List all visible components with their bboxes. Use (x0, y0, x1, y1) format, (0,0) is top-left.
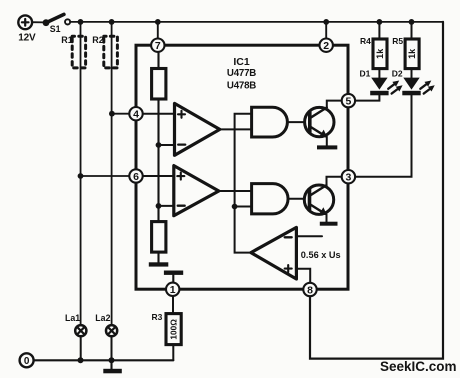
wire op2 - input (159, 205, 174, 207)
transistor Q1 (305, 107, 334, 137)
node pin 2 (320, 39, 333, 53)
junction top rail / pin2 (323, 19, 329, 25)
wire node6 to op2 + (142, 175, 173, 177)
svg-text:4: 4 (133, 109, 139, 121)
LED D1 (370, 78, 404, 96)
wire G1 output (288, 121, 305, 123)
svg-text:1k: 1k (407, 48, 417, 59)
svg-text:R1: R1 (61, 35, 73, 45)
wire R3 to bottom rail (172, 345, 174, 361)
junction divider / op2 inverting (156, 203, 162, 209)
svg-text:7: 7 (155, 40, 161, 52)
resistor R2 (dashed optional) (104, 36, 118, 68)
wire La1 branch (80, 22, 82, 325)
svg-text:U478B: U478B (227, 81, 256, 92)
svg-text:D1: D1 (360, 68, 371, 78)
wire A3 - reference (296, 235, 322, 237)
junction bottom rail / La1 (78, 357, 84, 363)
resistor R3 (166, 314, 181, 345)
IC1 box (136, 45, 348, 289)
wire La2 branch (111, 22, 113, 325)
resistor divider upper (152, 69, 166, 100)
wire node5 to D1 (355, 95, 380, 100)
node pin 1 (166, 283, 179, 297)
wire node1 to R3 (172, 296, 174, 314)
wire bottom rail (34, 359, 174, 361)
junction top rail / La1 branch (78, 19, 84, 25)
svg-text:0: 0 (24, 356, 30, 367)
op-amp A1 (175, 103, 220, 155)
lamp La2 (106, 325, 117, 336)
wire divider to ground (157, 252, 159, 262)
ground Q1 (317, 145, 337, 149)
wire comparator output riser (235, 114, 252, 253)
wire junction to node 4 (112, 113, 130, 115)
junction top rail / R5 (409, 19, 415, 25)
junction bottom rail / La2 (109, 357, 115, 363)
ground bottom rail (103, 360, 122, 373)
wire Q1 collector to node5 (327, 101, 342, 108)
wire Q1 emitter to ground (326, 137, 328, 146)
junction La2 branch / node4 (109, 111, 115, 117)
wire La2 to bottom rail (111, 337, 113, 360)
svg-text:100Ω: 100Ω (169, 319, 179, 340)
junction divider / op1 inverting (156, 142, 162, 148)
wire op1 - input (159, 144, 175, 146)
node pin 6 (129, 169, 142, 183)
svg-text:La2: La2 (95, 313, 110, 323)
wire divider chain (157, 99, 159, 222)
wire La1 to bottom rail (80, 337, 82, 360)
svg-text:6: 6 (133, 171, 139, 183)
op-amp A3 comparator (251, 227, 297, 279)
svg-text:3: 3 (345, 172, 351, 184)
junction La1 branch / node6 (78, 173, 84, 179)
wire G2 output (288, 198, 304, 200)
wire supply to switch (32, 21, 45, 23)
svg-text:1: 1 (170, 284, 176, 296)
svg-text:1k: 1k (375, 48, 385, 59)
wire node4 to op1 + (142, 113, 174, 115)
resistor R5 (405, 22, 419, 78)
ground pin1 (164, 271, 183, 284)
wire top rail (70, 21, 443, 23)
label IC1 U477B U478B (227, 56, 256, 92)
terminal +12V (18, 15, 32, 29)
node pin 5 (342, 94, 355, 108)
svg-text:5: 5 (345, 95, 351, 107)
wire op1 output to gate (220, 128, 252, 130)
svg-text:12V: 12V (18, 32, 36, 43)
svg-text:IC1: IC1 (233, 56, 250, 68)
node pin 7 (151, 39, 164, 53)
lamp La1 (75, 325, 86, 336)
wire A3 + to node8 (296, 269, 310, 283)
wire riser to gate2 lower input (235, 206, 252, 208)
AND gate G1 (252, 107, 288, 137)
node pin 8 (303, 283, 316, 297)
resistor R1 (dashed optional) (72, 36, 85, 68)
svg-text:S1: S1 (50, 24, 61, 34)
svg-text:La1: La1 (65, 313, 80, 323)
terminal 0 (20, 353, 34, 367)
svg-text:R4: R4 (360, 36, 371, 46)
wire pin7 stub (157, 22, 159, 39)
svg-text:SeekIC.com: SeekIC.com (380, 359, 457, 374)
svg-text:8: 8 (307, 284, 313, 296)
junction top rail / R4 (377, 19, 383, 25)
resistor R4 (373, 22, 387, 78)
svg-text:D2: D2 (392, 68, 403, 78)
junction top rail / La2 branch (109, 19, 115, 25)
wire D2 to node3 (355, 95, 412, 176)
svg-text:R5: R5 (392, 36, 403, 46)
switch S1 (43, 14, 71, 26)
ground Q2 (320, 222, 338, 226)
AND gate G2 (252, 184, 288, 214)
svg-text:R3: R3 (152, 312, 163, 322)
svg-text:0.56 x Us: 0.56 x Us (301, 250, 341, 260)
junction riser / gate2 input (232, 204, 238, 210)
wire op2 output to gate (219, 190, 252, 192)
LED D2 (402, 78, 436, 96)
wire node7 to divider (157, 52, 159, 69)
junction top rail / pin7 (155, 19, 161, 25)
ground divider (149, 262, 169, 266)
wire junction to node 6 (81, 175, 130, 177)
svg-text:U477B: U477B (227, 68, 256, 79)
wire pin2 stub (325, 22, 327, 39)
op-amp A2 (174, 166, 219, 216)
resistor divider lower (152, 222, 166, 253)
node pin 4 (129, 107, 142, 121)
node pin 3 (342, 170, 355, 184)
transistor Q2 (304, 185, 333, 215)
wire Q2 collector to node3 (327, 177, 343, 185)
svg-text:R2: R2 (92, 35, 104, 45)
svg-text:2: 2 (323, 40, 329, 52)
wire Q2 emitter to ground (326, 214, 328, 221)
wire output loop node8 to top rail (310, 22, 443, 359)
